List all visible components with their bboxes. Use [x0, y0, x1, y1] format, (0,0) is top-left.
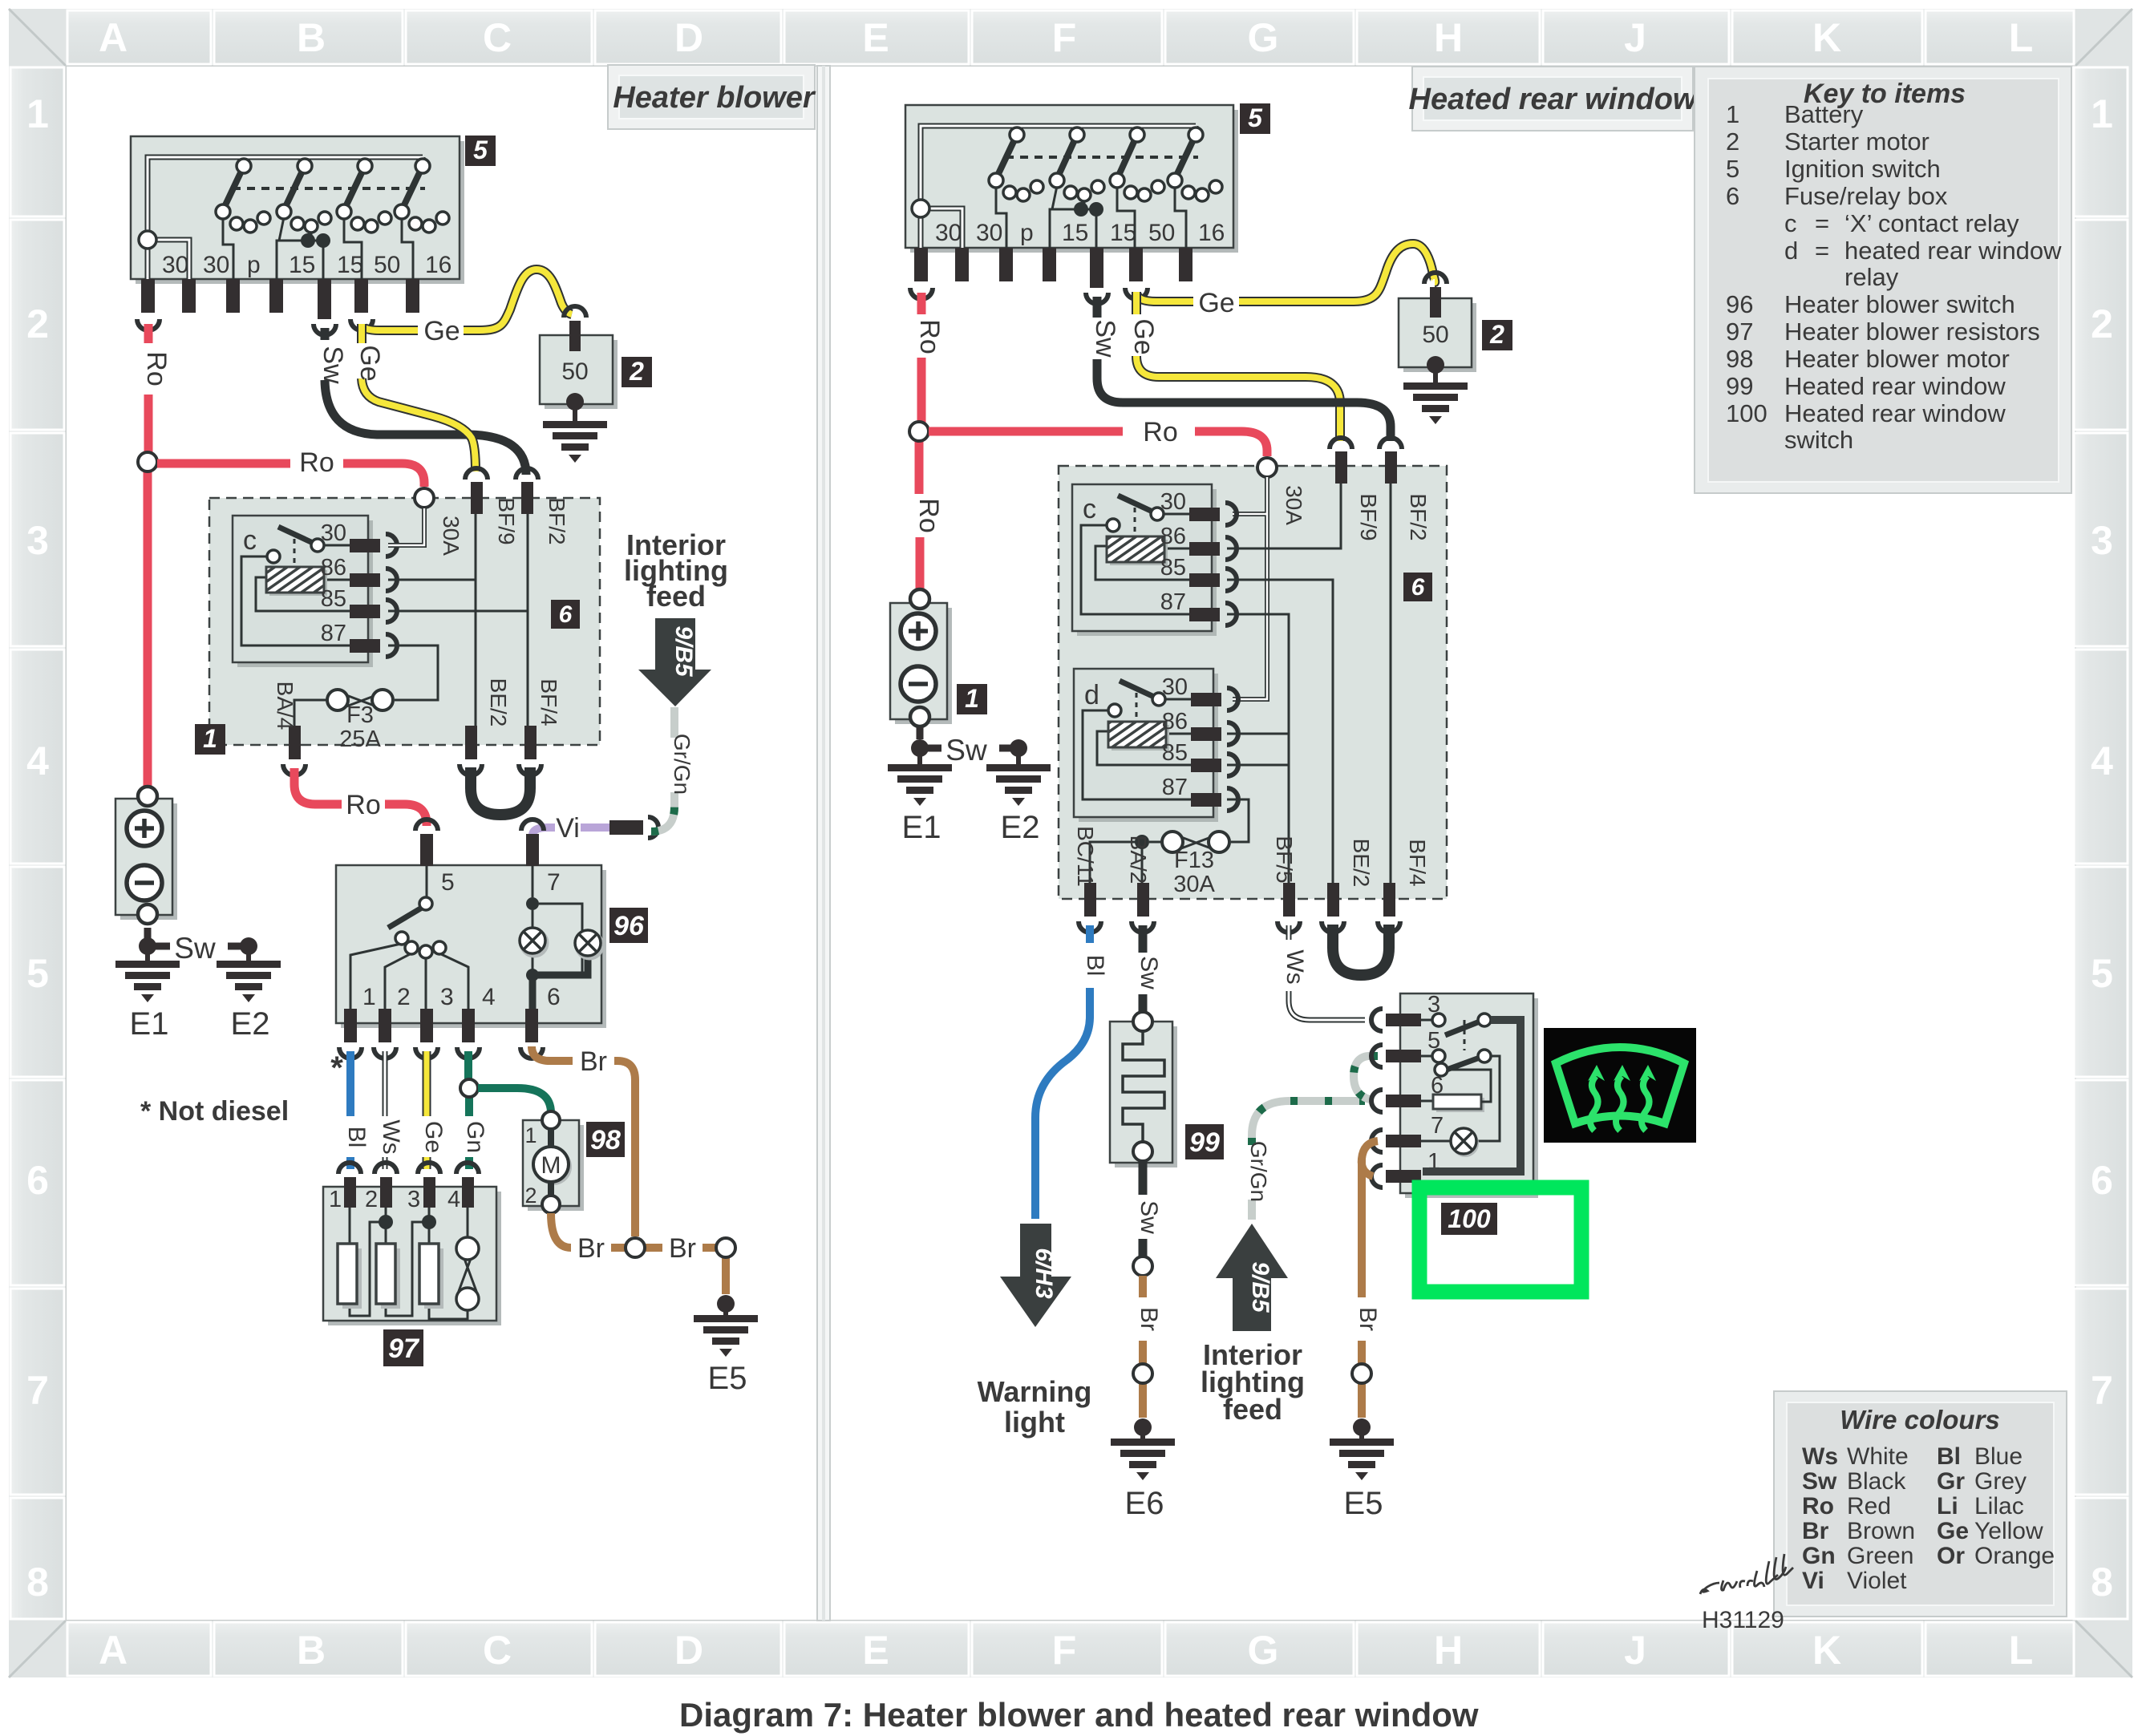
- relay d (right) pin labels: [1162, 674, 1188, 800]
- fuse box bottom tabs (right): [1084, 883, 1395, 917]
- svg-text:Yellow: Yellow: [1974, 1518, 2043, 1544]
- wire Ws BF/5 to switch 100: [1289, 925, 1365, 1020]
- wire Sw below 99: [1139, 1161, 1148, 1256]
- relay c (left): [233, 516, 373, 667]
- svg-text:BA/2: BA/2: [1126, 836, 1151, 884]
- wire U-loop BE/2 to BF/4 (right): [1333, 925, 1389, 975]
- svg-text:F13: F13: [1174, 848, 1214, 873]
- svg-text:F: F: [1052, 1628, 1077, 1673]
- svg-text:p: p: [1020, 220, 1034, 246]
- label tag 96: [609, 908, 648, 943]
- svg-text:Vi: Vi: [1802, 1568, 1824, 1594]
- svg-text:Heater blower motor: Heater blower motor: [1784, 345, 2010, 373]
- svg-text:87: 87: [1162, 775, 1188, 800]
- svg-text:BF/4: BF/4: [537, 678, 561, 726]
- svg-text:Bl: Bl: [343, 1127, 370, 1148]
- svg-text:30: 30: [1162, 674, 1188, 700]
- svg-text:5: 5: [26, 951, 49, 996]
- svg-text:Sw: Sw: [1090, 319, 1120, 358]
- svg-text:d: d: [1784, 237, 1798, 265]
- arrow 9/B5 interior lighting feed (left): [638, 618, 711, 706]
- wire Br from 96 pin6: [532, 1046, 635, 1236]
- svg-text:30: 30: [976, 220, 1002, 246]
- ground E5 (right): [1330, 1418, 1394, 1480]
- svg-text:Starter motor: Starter motor: [1784, 127, 1929, 156]
- svg-text:Li: Li: [1937, 1493, 1958, 1520]
- svg-text:c: c: [1083, 494, 1096, 524]
- svg-text:Diagram 7: Heater blower and h: Diagram 7: Heater blower and heated rear…: [679, 1696, 1479, 1734]
- grid letter tiles bottom: [67, 1622, 2074, 1676]
- svg-text:7: 7: [26, 1368, 49, 1413]
- relay c (right) pin labels: [1160, 489, 1186, 615]
- svg-text:5: 5: [441, 869, 455, 896]
- svg-text:Blue: Blue: [1974, 1443, 2023, 1470]
- svg-text:L: L: [2009, 15, 2034, 60]
- svg-text:2: 2: [524, 1184, 537, 1208]
- wire Ge branch to starter (left): [362, 269, 572, 330]
- relay c (left) pin labels: [321, 520, 346, 646]
- svg-text:Ge: Ge: [1128, 318, 1159, 354]
- label tag 2 (right): [1482, 320, 1512, 350]
- heated rear window indicator icon: [1544, 1028, 1696, 1143]
- wire Ro vertical (right): [919, 293, 921, 593]
- grid letters top: [99, 15, 2033, 60]
- svg-text:30: 30: [162, 252, 188, 278]
- switch 100 internals: [1421, 1014, 1520, 1171]
- label tag 98: [586, 1122, 625, 1157]
- svg-text:Ge: Ge: [1937, 1518, 1969, 1544]
- svg-text:Br: Br: [1802, 1518, 1829, 1544]
- svg-text:Sw: Sw: [1136, 956, 1162, 989]
- relay c (left) pin tabs: [350, 539, 380, 653]
- wire Ge branch to fuse box BF/9 (left): [362, 324, 476, 471]
- svg-text:1: 1: [1726, 100, 1739, 128]
- svg-text:2: 2: [365, 1187, 378, 1212]
- svg-text:A: A: [99, 1628, 128, 1673]
- ignition switch 5 (left) white bus wire: [139, 157, 423, 279]
- ignition switch 5 (left) gang dashed link: [233, 187, 425, 190]
- svg-text:Ro: Ro: [141, 351, 172, 386]
- svg-text:Green: Green: [1847, 1543, 1913, 1569]
- svg-text:BE/2: BE/2: [486, 678, 511, 727]
- svg-text:L: L: [2009, 1628, 2034, 1673]
- relay c (left) pin arcs: [386, 534, 397, 657]
- svg-text:2: 2: [26, 301, 49, 346]
- heater blower resistors 97: [323, 1187, 501, 1325]
- svg-text:100: 100: [1726, 399, 1767, 427]
- svg-text:F: F: [1052, 15, 1077, 60]
- arrow 9/B5 interior lighting feed (right): [1216, 1224, 1288, 1331]
- svg-text:4: 4: [2091, 739, 2113, 783]
- svg-text:6: 6: [1411, 574, 1425, 601]
- heater blower switch 96: [336, 865, 606, 1028]
- starter motor 50 box (left): [540, 306, 618, 409]
- label tag 6 (right): [1403, 573, 1432, 601]
- battery 1 (right): [890, 589, 952, 726]
- svg-text:97: 97: [388, 1333, 420, 1364]
- svg-text:2: 2: [1489, 320, 1504, 349]
- svg-text:Sw: Sw: [1802, 1468, 1837, 1495]
- svg-text:E6: E6: [1125, 1486, 1164, 1521]
- svg-text:1: 1: [2091, 91, 2113, 136]
- svg-text:Heated rear window: Heated rear window: [1784, 399, 2006, 427]
- wire Gr/Gn loop pin5 to pin6: [1354, 1056, 1378, 1099]
- svg-text:B: B: [297, 15, 326, 60]
- svg-text:9/B5: 9/B5: [670, 625, 697, 678]
- svg-text:Heater blower: Heater blower: [613, 81, 816, 115]
- grid letters bottom: [99, 1628, 2033, 1673]
- wire Ro BA/4 to heater switch (left): [294, 768, 427, 826]
- svg-text:E1: E1: [130, 1006, 169, 1042]
- svg-text:Orange: Orange: [1974, 1543, 2055, 1569]
- ignition switch 5 (left) pins: [141, 279, 419, 319]
- svg-text:Ignition switch: Ignition switch: [1784, 155, 1941, 183]
- ignition switch 5 (right): [905, 105, 1238, 253]
- ground below starter (right): [1403, 356, 1468, 424]
- svg-text:* Not diesel: * Not diesel: [140, 1096, 289, 1127]
- heated rear window switch 100: [1400, 993, 1538, 1198]
- svg-text:6: 6: [547, 984, 561, 1010]
- svg-text:50: 50: [1422, 322, 1448, 348]
- wire Br switch 100 to E5: [1358, 1159, 1366, 1418]
- label tag 97: [383, 1329, 423, 1366]
- wire Vi from switch 96 pin7: [532, 828, 609, 836]
- svg-text:15: 15: [337, 252, 363, 278]
- svg-text:Gr/Gn: Gr/Gn: [1246, 1141, 1271, 1202]
- label tag 5 (right): [1240, 103, 1270, 134]
- white wire 30A to relays (right): [1233, 477, 1267, 699]
- svg-text:H: H: [1434, 1628, 1463, 1673]
- white wire relay 30 to 30A (left): [388, 508, 424, 545]
- ground E2 (right): [986, 739, 1051, 845]
- svg-text:3: 3: [2091, 518, 2113, 563]
- svg-text:Ge: Ge: [420, 1121, 447, 1153]
- connector bar on Vi wire: [609, 820, 643, 835]
- relay c (right) pin tabs: [1189, 508, 1220, 621]
- node junction circle on Ro (right): [909, 422, 929, 441]
- svg-text:99: 99: [1189, 1127, 1220, 1158]
- fuse box top tabs BF/9 BF/2 (right): [1335, 451, 1397, 484]
- wire Br 99 to E6: [1139, 1276, 1147, 1418]
- svg-text:D: D: [674, 1628, 703, 1673]
- svg-text:6: 6: [2091, 1158, 2113, 1203]
- svg-text:30A: 30A: [439, 516, 464, 556]
- switch 96 bottom pins: [344, 1009, 538, 1042]
- svg-text:BF/9: BF/9: [1356, 493, 1381, 540]
- wire Br hook at switch 100 pin1: [1362, 1141, 1378, 1176]
- title box Heated rear window: [1409, 67, 1699, 131]
- relay d (right): [1074, 669, 1218, 822]
- svg-text:5: 5: [1248, 103, 1263, 132]
- node 30A circle (left): [415, 488, 434, 508]
- svg-text:2: 2: [1726, 127, 1739, 156]
- svg-text:2: 2: [397, 984, 411, 1010]
- svg-text:BE/2: BE/2: [1349, 839, 1374, 888]
- ground E6: [1111, 1418, 1175, 1480]
- svg-text:Violet: Violet: [1847, 1568, 1907, 1594]
- switch 100 pin labels: [1427, 992, 1444, 1175]
- svg-text:light: light: [1004, 1406, 1065, 1439]
- svg-text:B: B: [297, 1628, 326, 1673]
- svg-text:1: 1: [362, 984, 376, 1010]
- ignition switch 5 (right) gang dashed link: [1006, 156, 1198, 159]
- relay c (right) pin arcs: [1225, 503, 1237, 625]
- text interior lighting feed (left): [624, 528, 728, 613]
- svg-text:Br: Br: [1136, 1307, 1162, 1331]
- label tag 1 (right): [957, 684, 987, 714]
- ignition switch 5 (left) pin labels: [162, 252, 451, 278]
- svg-text:switch: switch: [1784, 426, 1853, 454]
- connector arc after Vi: [648, 817, 658, 838]
- svg-text:9/B5: 9/B5: [1247, 1261, 1273, 1313]
- svg-text:30: 30: [321, 520, 346, 546]
- svg-text:Gn: Gn: [1802, 1543, 1836, 1569]
- wire Gr/Gn feed to switch 100: [1252, 1101, 1365, 1220]
- label tag 2 (left): [622, 357, 652, 387]
- node circles on Br run: [626, 1238, 645, 1257]
- svg-text:Vi: Vi: [556, 813, 580, 844]
- wire Ge to starter (right): [1136, 244, 1435, 301]
- ignition switch 5 (left): [131, 136, 464, 284]
- wire Br motor to junction: [551, 1213, 571, 1248]
- svg-text:Br: Br: [669, 1233, 696, 1264]
- thermal fuse in 97: [456, 1237, 479, 1310]
- svg-text:Black: Black: [1847, 1468, 1906, 1495]
- svg-text:p: p: [247, 252, 261, 278]
- terminal arcs below ignition switch (left): [137, 319, 373, 335]
- label tag 1 (left): [195, 724, 225, 755]
- ground below starter (left): [543, 393, 607, 463]
- svg-text:8: 8: [2091, 1560, 2113, 1604]
- ignition switch 5 (right) switch arms: [996, 135, 1196, 179]
- ground E2 (left): [217, 937, 281, 1042]
- svg-text:=: =: [1815, 237, 1829, 265]
- svg-text:87: 87: [1160, 589, 1186, 615]
- wire Ge branch to fuse box BF/9 (right): [1136, 292, 1340, 441]
- relay d (right) pin arcs: [1227, 688, 1238, 811]
- fuse box internal lines (left): [294, 513, 528, 726]
- node circle on Br (E6 run): [1133, 1364, 1152, 1383]
- svg-text:1: 1: [203, 724, 217, 753]
- svg-text:E5: E5: [708, 1361, 747, 1396]
- ignition switch 5 (right) internal contact wiring: [996, 186, 1186, 248]
- svg-text:Ro: Ro: [914, 319, 945, 354]
- svg-text:2: 2: [2091, 301, 2113, 346]
- svg-text:feed: feed: [1223, 1393, 1282, 1426]
- svg-text:5: 5: [473, 136, 488, 164]
- wire Gr/Gn to interior lighting feed (left): [651, 707, 674, 832]
- green highlight rectangle: [1419, 1188, 1581, 1292]
- starter motor 50 box (right): [1399, 273, 1476, 372]
- svg-text:16: 16: [425, 252, 451, 278]
- svg-text:Ge: Ge: [423, 316, 460, 346]
- svg-text:C: C: [483, 15, 512, 60]
- svg-text:96: 96: [1726, 290, 1753, 318]
- svg-text:15: 15: [1062, 220, 1088, 246]
- fuse F3 (left): [327, 690, 393, 752]
- node 30A circle (right): [1257, 458, 1277, 477]
- svg-text:97: 97: [1726, 318, 1753, 346]
- svg-text:Ro: Ro: [913, 498, 944, 532]
- svg-text:Bl: Bl: [1082, 955, 1108, 977]
- svg-text:Ro: Ro: [299, 447, 334, 478]
- heated rear window 99: [1110, 1012, 1177, 1167]
- svg-text:D: D: [674, 15, 703, 60]
- svg-text:K: K: [1812, 15, 1841, 60]
- svg-text:BC/11: BC/11: [1073, 826, 1098, 887]
- svg-text:Gr: Gr: [1937, 1468, 1965, 1495]
- heater blower motor 98: [523, 1111, 584, 1213]
- svg-text:BF/5: BF/5: [1272, 836, 1297, 883]
- svg-text:Ws: Ws: [378, 1119, 404, 1154]
- svg-text:50: 50: [561, 358, 588, 385]
- svg-text:K: K: [1812, 1628, 1841, 1673]
- node circle on Gn wire: [460, 1079, 478, 1097]
- svg-text:4: 4: [26, 739, 49, 783]
- svg-text:Or: Or: [1937, 1543, 1965, 1569]
- svg-text:J: J: [1624, 15, 1646, 60]
- svg-text:feed: feed: [646, 580, 706, 613]
- svg-text:Lilac: Lilac: [1974, 1493, 2024, 1520]
- svg-text:Ge: Ge: [1198, 288, 1234, 318]
- svg-text:85: 85: [321, 586, 346, 612]
- svg-text:Ro: Ro: [346, 790, 380, 820]
- svg-text:relay: relay: [1844, 263, 1899, 291]
- svg-text:c: c: [1784, 209, 1797, 237]
- svg-text:5: 5: [2091, 951, 2113, 996]
- svg-text:3: 3: [26, 518, 49, 563]
- svg-text:Heated rear window: Heated rear window: [1409, 83, 1699, 116]
- svg-text:85: 85: [1160, 555, 1186, 581]
- svg-text:Br: Br: [580, 1046, 607, 1077]
- svg-text:2: 2: [629, 357, 644, 386]
- svg-text:Brown: Brown: [1847, 1518, 1915, 1544]
- svg-text:86: 86: [321, 555, 346, 581]
- ignition switch 5 (left) internal contact wiring: [223, 217, 413, 279]
- svg-text:Wire colours: Wire colours: [1840, 1405, 2000, 1435]
- svg-text:96: 96: [613, 911, 645, 941]
- fuse box top tabs BF/9 BF/2 (left): [471, 482, 533, 514]
- svg-text:85: 85: [1162, 740, 1188, 766]
- svg-text:Warning: Warning: [978, 1375, 1092, 1408]
- svg-text:M: M: [541, 1152, 561, 1179]
- svg-text:BF/2: BF/2: [1406, 493, 1431, 540]
- svg-text:7: 7: [2091, 1368, 2113, 1413]
- svg-text:H31129: H31129: [1702, 1607, 1784, 1633]
- switch 96 lamp circuit: [520, 866, 603, 1010]
- svg-text:G: G: [1248, 1628, 1279, 1673]
- svg-text:E: E: [862, 15, 889, 60]
- svg-text:Sw: Sw: [318, 346, 348, 384]
- switch 96 selector: [350, 866, 468, 1009]
- fuse F13 (right): [1135, 832, 1229, 897]
- svg-text:Sw: Sw: [174, 932, 216, 965]
- node circle on Br (E5 run right): [1352, 1364, 1371, 1383]
- wire Sw from ignition 15 (left): [325, 328, 526, 475]
- svg-text:1: 1: [524, 1123, 537, 1147]
- wire Sw BA/2 to window element: [1139, 925, 1148, 1012]
- svg-text:50: 50: [374, 252, 400, 278]
- wire Bl from 96 pin1: [346, 1051, 354, 1169]
- svg-text:J: J: [1624, 1628, 1646, 1673]
- svg-text:Ge: Ge: [354, 345, 385, 381]
- svg-text:Heater blower switch: Heater blower switch: [1784, 290, 2015, 318]
- svg-text:Ws: Ws: [1802, 1443, 1838, 1470]
- text interior lighting feed (right): [1201, 1338, 1305, 1426]
- wire Br junction run to E5: [611, 1248, 726, 1294]
- node junction circle on Ro (left): [138, 452, 157, 471]
- svg-text:3: 3: [407, 1187, 420, 1212]
- svg-text:6/H3: 6/H3: [1031, 1248, 1057, 1299]
- svg-text:1: 1: [965, 684, 979, 713]
- wire Ro horizontal to fuse box (left): [157, 463, 424, 487]
- svg-text:BF/4: BF/4: [1405, 839, 1430, 886]
- svg-text:=: =: [1815, 209, 1829, 237]
- svg-text:‘X’ contact relay: ‘X’ contact relay: [1844, 209, 2019, 237]
- svg-text:Fuse/relay box: Fuse/relay box: [1784, 182, 1948, 210]
- terminal arcs below ignition switch (right): [910, 288, 1148, 304]
- svg-text:E1: E1: [902, 810, 941, 845]
- svg-text:d: d: [1084, 680, 1099, 710]
- svg-text:30: 30: [935, 220, 962, 246]
- svg-text:Ws: Ws: [1282, 949, 1308, 984]
- svg-text:*: *: [330, 1050, 343, 1086]
- svg-text:BF/2: BF/2: [545, 497, 569, 544]
- wire Ws from 96 pin2: [383, 1051, 388, 1169]
- svg-text:White: White: [1847, 1443, 1909, 1470]
- svg-text:99: 99: [1726, 372, 1753, 400]
- wire Gn link to blower motor: [478, 1088, 551, 1113]
- svg-text:1: 1: [329, 1187, 342, 1212]
- relay c (right): [1072, 484, 1217, 636]
- wire colours legend: [1774, 1391, 2067, 1617]
- ignition switch 5 (right) junction dots: [1074, 202, 1088, 216]
- title box Heater blower: [608, 65, 816, 129]
- fuse/relay box 6 (left, dashed): [209, 498, 600, 745]
- svg-text:15: 15: [1110, 220, 1136, 246]
- svg-text:Ro: Ro: [1802, 1493, 1834, 1520]
- svg-text:5: 5: [1726, 155, 1739, 183]
- switch 100 pin tabs: [1386, 1014, 1421, 1183]
- ignition switch 5 (left) contact circles: [216, 159, 449, 233]
- svg-text:87: 87: [321, 621, 346, 646]
- svg-text:100: 100: [1448, 1204, 1491, 1233]
- svg-text:7: 7: [1431, 1113, 1444, 1139]
- label tag 6 (left): [551, 600, 580, 629]
- wire Ro horizontal to fuse box (right): [929, 431, 1267, 456]
- fuse/relay box 6 (right, dashed): [1059, 466, 1447, 899]
- svg-text:A: A: [99, 15, 128, 60]
- key to items legend: [1695, 67, 2071, 493]
- svg-text:BF/9: BF/9: [494, 497, 519, 544]
- grid letter tiles top: [67, 10, 2074, 64]
- wire Bl BC/11 to warning light: [1035, 925, 1090, 1219]
- resistors 97 internals: [350, 1208, 468, 1319]
- svg-text:15: 15: [289, 252, 315, 278]
- wire Sw battery to ground E1 (left): [139, 928, 170, 955]
- svg-text:Gr/Gn: Gr/Gn: [670, 734, 694, 795]
- ignition switch 5 (right) contact circles: [989, 127, 1222, 201]
- svg-text:C: C: [483, 1628, 512, 1673]
- svg-text:Red: Red: [1847, 1493, 1891, 1520]
- fuse box bottom tabs BA/4 BE/2 BF/4 (left): [289, 726, 537, 759]
- wire Sw battery to ground E1 (right): [911, 727, 941, 757]
- svg-text:6: 6: [559, 601, 573, 628]
- wire Ge from 96 pin3: [423, 1051, 431, 1169]
- svg-text:86: 86: [1162, 709, 1188, 734]
- svg-text:Gn: Gn: [462, 1121, 488, 1153]
- svg-text:Battery: Battery: [1784, 100, 1864, 128]
